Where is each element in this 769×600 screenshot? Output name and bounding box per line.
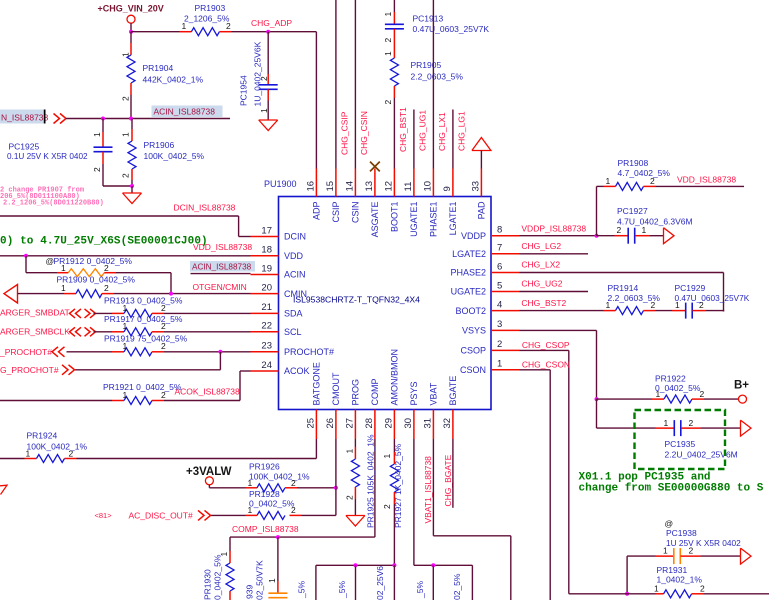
- node VDDP junction: [595, 234, 599, 238]
- svg-text:CSIP: CSIP: [331, 202, 341, 223]
- pin 12 BOOT1 stub: [393, 169, 395, 197]
- svg-text:1: 1: [654, 583, 659, 593]
- svg-text:PC1913: PC1913: [413, 14, 444, 24]
- svg-text:_5%: _5%: [297, 581, 307, 599]
- wire CMOUT vertical pin 26: [335, 439, 337, 515]
- svg-text:1: 1: [606, 300, 611, 310]
- svg-text:G_PROCHOT#: G_PROCHOT#: [0, 365, 59, 375]
- svg-text:CHG_CSIN: CHG_CSIN: [359, 111, 369, 155]
- svg-text:939: 939: [245, 585, 255, 599]
- svg-text:2: 2: [161, 390, 166, 400]
- no-connect X on pin 13 ASGATE: [370, 162, 380, 172]
- resistor PR1927 1K_0402_5%: [393, 439, 395, 452]
- off-page connector bidirectional SMBDAT: [70, 309, 76, 318]
- svg-text:0.47U_0603_25V7K: 0.47U_0603_25V7K: [413, 24, 490, 34]
- wire PR1919 to pin 23: [164, 351, 251, 353]
- svg-text:COMP_ISL88738: COMP_ISL88738: [232, 524, 299, 534]
- svg-text:13: 13: [364, 181, 375, 192]
- wire LGATE1 column stub: [452, 110, 454, 169]
- wire VDDP pin 8 to junction: [520, 235, 597, 237]
- svg-text:CHG_BST2: CHG_BST2: [521, 298, 566, 308]
- wire VSYS down to PC1935: [596, 399, 598, 428]
- pin 29 AMON/BMON stub: [393, 410, 395, 440]
- svg-text:ACOK: ACOK: [284, 366, 310, 376]
- svg-text:2: 2: [161, 303, 166, 313]
- wire DCIN from left edge: [0, 215, 239, 217]
- wire BOOT2 pin 4 to PR1914: [520, 310, 604, 312]
- off-page arrow PC1935: [741, 420, 752, 436]
- wire BOOT1 column top: [393, 0, 395, 12]
- svg-text:ACIN: ACIN: [284, 270, 306, 280]
- svg-text:2: 2: [104, 263, 109, 273]
- svg-text:0) to 4.7U_25V_X6S(SE00001CJ: 0) to 4.7U_25V_X6S(SE00001CJ00): [0, 236, 208, 248]
- green dashed highlight box around PC1935: [635, 410, 726, 469]
- svg-text:2: 2: [161, 341, 166, 351]
- svg-text:CHG_LG1: CHG_LG1: [457, 111, 467, 151]
- pin 21 SDA stub: [251, 312, 279, 314]
- wire PC1938 to arrow: [701, 555, 741, 557]
- svg-text:1: 1: [344, 449, 354, 454]
- svg-text:1: 1: [123, 303, 128, 313]
- svg-text:PSYS: PSYS: [409, 381, 419, 405]
- svg-text:PR1906: PR1906: [144, 140, 175, 150]
- wire DCIN step down: [238, 216, 240, 237]
- svg-text:20: 20: [261, 282, 272, 293]
- svg-text:1: 1: [248, 478, 253, 488]
- wire PR1909 to pin 20: [114, 293, 251, 295]
- svg-text:UGATE1: UGATE1: [409, 202, 419, 237]
- svg-text:CHG_BST1: CHG_BST1: [398, 107, 408, 152]
- svg-text:0.47U_0603_25V7K: 0.47U_0603_25V7K: [675, 293, 750, 303]
- wire CSOP pin 2 route: [520, 349, 569, 351]
- wire PC1925 to PR1906 bottom: [103, 185, 132, 187]
- svg-text:1: 1: [663, 546, 668, 556]
- svg-text:CHG_LX1: CHG_LX1: [437, 112, 447, 151]
- svg-text:1: 1: [121, 52, 131, 57]
- node PSYS bus junction: [431, 563, 435, 567]
- svg-text:<81>: <81>: [95, 511, 113, 520]
- svg-text:PR1922: PR1922: [655, 374, 686, 384]
- svg-text:2.2_1206_5%(8D011220B80): 2.2_1206_5%(8D011220B80): [3, 199, 104, 207]
- svg-text:CHG_CSIP: CHG_CSIP: [340, 111, 350, 155]
- svg-text:PR1914: PR1914: [608, 283, 639, 293]
- pin 9 LGATE1 stub: [452, 169, 454, 197]
- svg-text:CHG_LX2: CHG_LX2: [521, 260, 560, 270]
- svg-text:CHG_UG1: CHG_UG1: [418, 110, 428, 151]
- svg-text:BATGONE: BATGONE: [312, 362, 322, 405]
- svg-text:27: 27: [345, 418, 356, 429]
- svg-text:11: 11: [403, 182, 414, 192]
- svg-text:VBAT: VBAT: [429, 382, 439, 405]
- svg-text:33: 33: [470, 181, 481, 192]
- svg-text:1: 1: [123, 390, 128, 400]
- wire ACIN horizontal: [66, 118, 230, 120]
- resistor PR1924 100K_0402_1%: [0, 458, 25, 460]
- svg-text:100K_0402_1%: 100K_0402_1%: [249, 471, 310, 481]
- svg-text:0_0402_5%: 0_0402_5%: [213, 554, 223, 600]
- svg-text:442K_0402_1%: 442K_0402_1%: [143, 75, 204, 85]
- svg-text:2: 2: [699, 300, 704, 310]
- wire PR1917 to pin 22: [164, 331, 251, 333]
- node CHG_VIN junction: [129, 30, 133, 34]
- node VSYS junction: [595, 397, 599, 401]
- wire to ground: [131, 186, 133, 193]
- wire BATGONE up to pin 25: [315, 439, 317, 459]
- node ACIN-PR1904 junction: [129, 117, 133, 121]
- wire SMBCLK to PR1917: [94, 331, 113, 333]
- pin 11 UGATE1 stub: [413, 169, 415, 197]
- wire VDD from left edge to pin 18: [0, 255, 251, 257]
- svg-text:PR1930: PR1930: [203, 569, 213, 600]
- svg-text:2: 2: [689, 546, 694, 556]
- svg-text:OTGEN/CMIN: OTGEN/CMIN: [193, 282, 247, 292]
- svg-text:2: 2: [651, 300, 656, 310]
- wire CSIN column from top edge: [354, 0, 356, 169]
- wire PSYS branch down: [432, 565, 434, 600]
- svg-text:CMIN: CMIN: [284, 289, 307, 299]
- wire COMP down to PR1930: [229, 537, 231, 551]
- wire LGATE2 pin 7: [520, 253, 589, 255]
- svg-text:21: 21: [261, 302, 272, 313]
- wire VDDP to PC1927: [597, 235, 615, 237]
- svg-text:BOOT1: BOOT1: [390, 202, 400, 233]
- wire bus branch down 2: [393, 565, 395, 600]
- wire VDDP up to PR1908: [596, 186, 598, 235]
- wire +3VALW to PR1926: [208, 485, 210, 488]
- wire arrow to PR1909: [18, 293, 65, 295]
- resistor PR1913 0_0402_5%: [112, 312, 124, 314]
- svg-text:17: 17: [261, 225, 272, 236]
- wire UGATE2 pin 5: [520, 291, 589, 293]
- svg-text:PHASE2: PHASE2: [450, 268, 486, 278]
- svg-text:1: 1: [664, 418, 669, 428]
- svg-text:2: 2: [497, 339, 502, 350]
- svg-text:15: 15: [325, 181, 336, 192]
- svg-text:VDDP_ISL88738: VDDP_ISL88738: [521, 224, 586, 234]
- svg-text:DCIN: DCIN: [284, 232, 306, 242]
- wire PR1922 to B+: [704, 398, 739, 400]
- svg-text:2: 2: [650, 176, 655, 186]
- red mark at left edge: [0, 485, 7, 494]
- capacitor PC1925 0.1U 25V K X5R 0402: [102, 119, 104, 133]
- svg-text:2: 2: [383, 38, 393, 43]
- svg-text:2: 2: [226, 21, 231, 31]
- wire CSON pin 1 route: [520, 369, 551, 371]
- resistor PR1926 100K_0402_1%: [246, 487, 258, 489]
- svg-text:1: 1: [123, 341, 128, 351]
- svg-text:1: 1: [219, 552, 229, 557]
- svg-text:1_0402_1%: 1_0402_1%: [657, 575, 703, 585]
- resistor PR1906 100K_0402_5%: [131, 119, 133, 130]
- wire PHASE2 pin 6 route: [520, 272, 724, 274]
- resistor PR1904 442K_0402_1%: [130, 32, 132, 43]
- resistor PR1928 0_0402_5%: [290, 514, 302, 516]
- svg-text:1: 1: [26, 448, 31, 458]
- svg-text:2: 2: [161, 321, 166, 331]
- svg-text:6: 6: [497, 261, 502, 272]
- wire AMON bottom bus: [316, 564, 395, 566]
- svg-text:CHG_CSON: CHG_CSON: [522, 359, 570, 369]
- off-page connector left arrow CMIN row: [4, 285, 18, 304]
- svg-text:LGATE1: LGATE1: [448, 202, 458, 236]
- highlighted net label ACIN_ISL88738 at pin 19: [190, 261, 255, 272]
- wire DCIN into pin 17: [239, 236, 251, 238]
- svg-text:PR1921 0_0402_5%: PR1921 0_0402_5%: [103, 382, 182, 392]
- wire COMP horizontal: [230, 536, 375, 538]
- resistor PR1917 0_0402_5%: [112, 331, 124, 333]
- svg-text:1U_0402_25V6K: 1U_0402_25V6K: [253, 41, 263, 106]
- node ground junction: [130, 184, 134, 188]
- svg-text:N_ISL88738: N_ISL88738: [1, 113, 49, 123]
- wire VBAT pin 31 route: [432, 439, 434, 536]
- pin 19 ACIN stub: [251, 274, 279, 276]
- svg-text:24: 24: [261, 360, 272, 371]
- pin 10 PHASE1 stub: [432, 169, 434, 197]
- node CMOUT junction: [334, 486, 338, 490]
- resistor PR1908 4.7_0402_5%: [604, 185, 616, 187]
- svg-text:1: 1: [123, 321, 128, 331]
- svg-text:1: 1: [382, 454, 392, 459]
- off-page arrow PC1938: [741, 548, 752, 564]
- svg-text:1: 1: [642, 225, 647, 235]
- svg-text:2: 2: [700, 583, 705, 593]
- svg-text:12: 12: [383, 181, 394, 192]
- wire PSYS bus corner down: [471, 565, 473, 600]
- svg-text:PR1928: PR1928: [249, 489, 280, 499]
- node ACIN-PC1925 junction: [101, 117, 105, 121]
- pin 16 ADP stub: [315, 169, 317, 197]
- svg-text:2: 2: [689, 418, 694, 428]
- capacitor PC1929 0.47U_0603_25V7K: [672, 310, 686, 312]
- wire bus corner down left: [315, 565, 317, 600]
- svg-text:14: 14: [344, 181, 355, 192]
- pin 14 CSIN stub: [354, 169, 356, 197]
- node CHG_ADP junction: [266, 30, 270, 34]
- ground below PR1925: [346, 515, 365, 517]
- node bus junction 2: [392, 563, 396, 567]
- svg-text:7: 7: [497, 243, 502, 254]
- svg-text:ACOK_ISL88738: ACOK_ISL88738: [175, 387, 240, 397]
- wire PROCHOT branch to output chevron: [75, 369, 220, 371]
- wire PROCHOT to PR1919: [67, 351, 113, 353]
- off-page connector PROCHOT output: [62, 365, 68, 375]
- svg-text:2: 2: [69, 448, 74, 458]
- pin 13 ASGATE stub: [374, 169, 376, 197]
- wire PHASE1 column from top edge: [432, 0, 434, 169]
- wire PC1954 to ground: [267, 101, 269, 121]
- svg-text:2.2U_0402_25V6M: 2.2U_0402_25V6M: [665, 450, 738, 460]
- svg-text:23: 23: [261, 341, 272, 352]
- wire PR1908 to VDD label: [656, 185, 745, 187]
- svg-text:2: 2: [121, 173, 131, 178]
- resistor PR1903 2_1206_5%: [180, 31, 192, 33]
- svg-text:UGATE2: UGATE2: [451, 287, 486, 297]
- svg-text:0.1U 25V K X5R 0402: 0.1U 25V K X5R 0402: [7, 152, 88, 161]
- svg-text:PR1925 105K_0402_1%: PR1925 105K_0402_1%: [366, 434, 376, 528]
- wire PROCHOT down: [219, 352, 221, 370]
- svg-text:CHG_UG2: CHG_UG2: [521, 279, 562, 289]
- svg-text:2: 2: [92, 167, 102, 172]
- node CSOP bottom junction: [625, 592, 629, 596]
- resistor PR1930 0_0402_5% bottom cut: [229, 551, 231, 563]
- svg-text:4.7_0402_5%: 4.7_0402_5%: [618, 168, 671, 178]
- resistor PR1912 0_0402_5% (orange modified): [26, 272, 57, 274]
- off-page connector AC_DISC_OUT#: [198, 510, 204, 520]
- svg-text:2: 2: [291, 505, 296, 515]
- svg-text:DCIN_ISL88738: DCIN_ISL88738: [174, 203, 236, 213]
- wire VDD down to PR1912: [25, 256, 27, 273]
- svg-text:@: @: [665, 519, 674, 529]
- wire BGATE pin 32 down: [452, 439, 454, 508]
- svg-text:CHG_ADP: CHG_ADP: [251, 18, 292, 28]
- node VDD-PR1912 junction: [24, 254, 28, 258]
- svg-text:1: 1: [61, 283, 66, 293]
- svg-text:2: 2: [121, 96, 131, 101]
- wire PR1914 to PC1929: [656, 310, 673, 312]
- svg-text:1: 1: [61, 263, 66, 273]
- capacitor PC1935 2.2U_0402_25V6M: [656, 427, 675, 429]
- svg-text:1: 1: [383, 51, 393, 56]
- svg-text:ACIN_ISL88738: ACIN_ISL88738: [154, 107, 216, 117]
- svg-text:22: 22: [261, 321, 272, 332]
- svg-text:+CHG_VIN_20V: +CHG_VIN_20V: [98, 4, 164, 14]
- svg-text:PAD: PAD: [477, 201, 487, 219]
- svg-text:1: 1: [656, 389, 661, 399]
- svg-text:28: 28: [364, 418, 375, 429]
- svg-text:2: 2: [383, 100, 393, 105]
- svg-text:32: 32: [442, 418, 453, 429]
- wire BATGONE long horizontal: [77, 458, 317, 460]
- off-page connector ACIN input chevrons: [54, 114, 60, 124]
- wire PR1928 to chevron: [211, 514, 246, 516]
- svg-text:CSOP: CSOP: [460, 346, 486, 356]
- svg-text:CMOUT: CMOUT: [331, 372, 341, 405]
- pin 20 CMIN stub: [251, 293, 279, 295]
- svg-text:VDDP: VDDP: [461, 231, 486, 241]
- capacitor PC1927 4.7U_0402_6.3V6M: [615, 235, 629, 237]
- wire VSYS pin 3 route: [520, 329, 597, 331]
- svg-text:02_50V7K: 02_50V7K: [255, 560, 265, 600]
- svg-text:PR1904: PR1904: [143, 63, 174, 73]
- svg-text:AMON/BMON: AMON/BMON: [390, 349, 400, 406]
- wire UGATE1 column stub: [413, 110, 415, 169]
- ground below PR1906: [123, 192, 142, 194]
- wire PR1931 to right edge: [704, 593, 769, 595]
- svg-text:PR1905: PR1905: [411, 60, 442, 70]
- svg-text:PR1917 0_0402_5%: PR1917 0_0402_5%: [104, 314, 183, 324]
- svg-text:VBAT1_ISL88738: VBAT1_ISL88738: [423, 456, 433, 524]
- wire PR1913 to pin 21: [164, 312, 251, 314]
- svg-text:PC1929: PC1929: [675, 283, 706, 293]
- svg-text:CHG_CSOP: CHG_CSOP: [522, 340, 570, 350]
- capacitor PC1913 0.47U_0603_25V7K: [393, 12, 395, 24]
- svg-text:1: 1: [121, 132, 131, 137]
- pin 7 LGATE2 stub: [491, 253, 520, 255]
- svg-text:1: 1: [92, 132, 102, 137]
- resistor PR1922 0_0402_5%: [597, 398, 653, 400]
- off-page connector bidirectional SMBCLK: [70, 327, 76, 336]
- pin 1 CSON stub: [491, 369, 520, 371]
- pin 27 PROG stub: [354, 410, 356, 440]
- svg-text:ADP: ADP: [312, 202, 322, 221]
- wire PR1921 to left edge: [0, 400, 112, 402]
- pin 23 PROCHOT# stub: [251, 351, 279, 353]
- svg-text:02_5%: 02_5%: [452, 573, 462, 600]
- svg-text:PROG: PROG: [351, 379, 361, 406]
- svg-text:100K_0402_1%: 100K_0402_1%: [27, 442, 88, 452]
- svg-text:PR1926: PR1926: [249, 462, 280, 472]
- wire PC1929 to PHASE2 column: [706, 310, 724, 313]
- pin 3 VSYS stub: [491, 329, 520, 331]
- wire CHG_ADP down to PC1954: [267, 32, 269, 74]
- svg-text:B+: B+: [734, 380, 749, 392]
- power arrow above pin 33 PAD: [472, 138, 491, 151]
- svg-text:_5%: _5%: [337, 581, 347, 599]
- svg-text:ARGER_SMBCLK: ARGER_SMBCLK: [0, 327, 70, 337]
- svg-text:2.2_0603_5%: 2.2_0603_5%: [411, 72, 464, 82]
- svg-text:5: 5: [497, 280, 502, 291]
- pin 22 SCL stub: [251, 331, 279, 333]
- pin 33 PAD stub: [480, 169, 482, 197]
- svg-text:PC1935: PC1935: [665, 439, 696, 449]
- svg-text:4: 4: [497, 299, 502, 310]
- svg-text:AC_DISC_OUT#: AC_DISC_OUT#: [129, 511, 194, 521]
- wire PR1912 to pin19 column: [116, 272, 171, 274]
- svg-text:BOOT2: BOOT2: [455, 306, 486, 316]
- svg-text:SDA: SDA: [284, 309, 303, 319]
- svg-text:2: 2: [344, 495, 354, 500]
- wire PR1926 to CMOUT column: [297, 487, 336, 489]
- svg-text:VDD: VDD: [284, 251, 304, 261]
- svg-text:1: 1: [267, 578, 277, 583]
- highlighted net label N_ISL88738 at left edge: [0, 110, 46, 124]
- svg-text:PU1900: PU1900: [264, 179, 297, 189]
- svg-text:_PROCHOT#: _PROCHOT#: [0, 347, 52, 357]
- pin 6 PHASE2 stub: [491, 272, 520, 274]
- wire PAD to arrow: [480, 151, 482, 169]
- wire CHG_VIN to PR1903 pin1: [131, 31, 180, 33]
- svg-text:PR1924: PR1924: [27, 431, 58, 441]
- resistor PR1914 2.2_0603_5%: [604, 310, 616, 312]
- svg-text:2: 2: [700, 389, 705, 399]
- svg-text:VDD_ISL88738: VDD_ISL88738: [677, 175, 736, 185]
- svg-text:2: 2: [104, 283, 109, 293]
- pin 24 ACOK stub: [251, 370, 279, 372]
- pin 18 VDD stub: [251, 255, 279, 257]
- svg-text:PROCHOT#: PROCHOT#: [284, 347, 334, 357]
- pin 31 VBAT stub: [432, 410, 434, 440]
- svg-text:1: 1: [182, 21, 187, 31]
- pin 5 UGATE2 stub: [491, 291, 520, 293]
- node PROCHOT junction: [218, 350, 222, 354]
- svg-text:1: 1: [248, 505, 253, 515]
- svg-text:10: 10: [422, 181, 433, 192]
- svg-text:VDD_ISL88738: VDD_ISL88738: [193, 242, 252, 252]
- svg-text:29: 29: [384, 418, 395, 429]
- svg-text:31: 31: [423, 418, 434, 429]
- svg-text:CSIN: CSIN: [351, 202, 361, 224]
- svg-text:8: 8: [497, 225, 502, 236]
- svg-text:SCL: SCL: [284, 327, 302, 337]
- wire CSOP bottom to PR1931: [569, 593, 656, 595]
- capacitor PC1939 0.1U_0402_50V7K orange bottom cut: [277, 537, 279, 581]
- op-amp U1 charger IC PU1900 ISL9538 body: [279, 197, 492, 410]
- svg-text:1: 1: [497, 359, 502, 370]
- svg-text:19: 19: [261, 263, 272, 274]
- svg-text:PC1938: PC1938: [666, 528, 697, 538]
- highlighted net label ACIN_ISL88738: [152, 106, 223, 118]
- resistor PR1921 0_0402_5%: [152, 400, 164, 402]
